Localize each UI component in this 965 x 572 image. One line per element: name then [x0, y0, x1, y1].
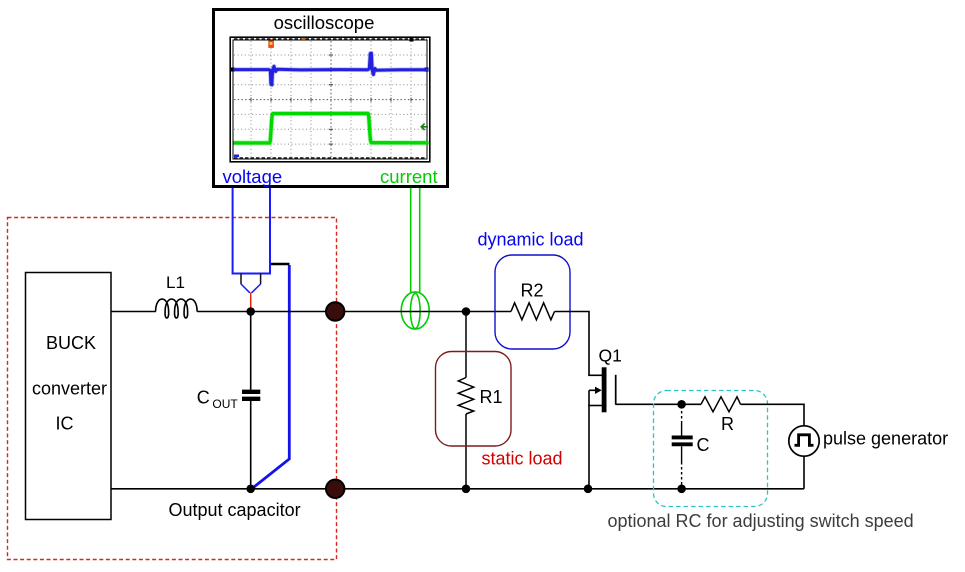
- svg-text:voltage: voltage: [223, 166, 283, 187]
- Q1 gate lead wire to RC: [616, 403, 701, 405]
- voltage probe body bottom: [232, 273, 271, 275]
- capacitor Cout plates: [242, 390, 260, 394]
- scope trigger tick left edge: [231, 68, 235, 72]
- inductor L1 coil: [156, 299, 198, 318]
- wire: R2 to Q1 drain corner: [555, 312, 590, 376]
- Q1 gate electrode: [615, 375, 617, 405]
- voltage probe cable right side: [269, 188, 271, 274]
- voltage probe ground lead (blue): [252, 265, 289, 489]
- node: Q1 source on rail: [584, 485, 593, 494]
- optional RC dashed teal box: [654, 391, 768, 507]
- node A: Cout / probe tip on top wire: [246, 307, 255, 316]
- BUCK converter IC box: [26, 273, 112, 520]
- scope trigger tick right edge: [425, 68, 429, 72]
- capacitor C dashed lead top: [681, 406, 683, 423]
- current probe clamp inner ring: [411, 293, 421, 328]
- Q1 source lead: [588, 405, 602, 407]
- scope screen outer frame: [230, 37, 430, 162]
- svg-text:OUT: OUT: [212, 397, 238, 411]
- R1 branch wire bottom: [465, 414, 467, 489]
- resistor R2 zigzag: [511, 303, 555, 320]
- node: gate / C junction: [677, 400, 686, 409]
- svg-text:converter: converter: [32, 379, 107, 399]
- scope green current trace: [234, 113, 429, 142]
- voltage probe ground lead connector: [271, 263, 290, 266]
- wire: R to pulse generator: [741, 404, 805, 426]
- voltage probe tip pin (red): [250, 293, 252, 309]
- scope blue voltage trace: [234, 53, 429, 85]
- svg-text:current: current: [380, 166, 438, 187]
- R1 branch wire top: [465, 312, 467, 378]
- node: C bottom on rail: [677, 485, 686, 494]
- Q1 source arrow line: [589, 389, 597, 391]
- svg-text:R2: R2: [521, 281, 544, 301]
- svg-text:BUCK: BUCK: [46, 333, 96, 353]
- scope center graticule cross lines: [234, 41, 427, 158]
- dynamic load rounded box (blue): [495, 255, 570, 349]
- voltage probe cable left side: [232, 188, 234, 274]
- current probe cable right side: [419, 188, 421, 294]
- bottom ground rail: [111, 488, 804, 490]
- svg-text:L1: L1: [166, 273, 185, 292]
- top wire: L1 to R2: [197, 311, 511, 313]
- pulse generator circle: [789, 426, 819, 456]
- Cout wire bottom: [250, 401, 252, 489]
- svg-text:pulse generator: pulse generator: [823, 429, 948, 449]
- scope ch1 indicator bottom-left: [234, 155, 239, 158]
- scope bottom edge tick row: [234, 157, 427, 159]
- Q1 channel bar: [602, 367, 607, 412]
- static load rounded box (dark red): [436, 352, 512, 447]
- svg-text:oscilloscope: oscilloscope: [274, 12, 375, 33]
- scope green trace fuzz: [234, 113, 429, 142]
- node: R1 bottom: [462, 485, 471, 494]
- svg-text:C: C: [697, 435, 710, 455]
- svg-text:Output capacitor: Output capacitor: [169, 500, 301, 520]
- scope small orange tick on top row: [302, 38, 306, 40]
- Q1 drain lead: [588, 374, 602, 376]
- top output wire: buck box to L1: [111, 311, 156, 313]
- scope top edge tick row: [234, 38, 427, 40]
- Cout wire top: [250, 312, 252, 390]
- voltage probe tip barrel right: [260, 274, 262, 285]
- svg-text:C: C: [197, 388, 210, 408]
- resistor R zigzag (gate series): [701, 397, 741, 412]
- svg-text:dynamic load: dynamic load: [478, 230, 584, 250]
- Q1 source vertical wire to rail: [588, 390, 590, 489]
- svg-text:Q1: Q1: [599, 346, 622, 366]
- svg-text:IC: IC: [56, 414, 74, 434]
- node: Cout bottom / probe ground: [246, 485, 255, 494]
- pulse symbol: [795, 435, 814, 446]
- terminal post bottom (dark): [326, 480, 344, 498]
- scope trigger tick top edge: [410, 38, 414, 42]
- svg-text:static load: static load: [482, 449, 563, 469]
- scope screen inner frame: [233, 40, 427, 159]
- svg-text:R: R: [721, 414, 734, 434]
- terminal post top (dark): [326, 302, 344, 320]
- capacitor C dashed lead bottom: [681, 462, 683, 487]
- current probe cable left side: [410, 188, 412, 294]
- dashed red box (buck converter module outline): [8, 218, 337, 560]
- scope graticule grid: [234, 41, 427, 158]
- svg-text:optional RC for adjusting swit: optional RC for adjusting switch speed: [608, 511, 914, 531]
- scope green reference arrow right side: [421, 124, 428, 130]
- voltage probe tip cone: [241, 284, 261, 293]
- Q1 source arrow head: [595, 387, 602, 394]
- scope blue trace fuzz: [234, 53, 429, 85]
- node B: R1 branch top: [462, 307, 471, 316]
- capacitor C lead bottom solid: [681, 446, 683, 462]
- current probe clamp outer ring: [401, 292, 429, 329]
- oscilloscope box U-scope: [214, 10, 448, 187]
- scope center graticule cross ticks: [251, 55, 411, 144]
- capacitor C lead top solid: [681, 423, 683, 436]
- svg-text:R1: R1: [480, 387, 503, 407]
- capacitor C plates: [672, 435, 693, 439]
- wire: pulse generator bottom to rail: [803, 456, 805, 489]
- scope channel 1 marker (orange): [268, 41, 274, 48]
- voltage probe tip barrel left: [240, 274, 242, 285]
- resistor R1 zigzag: [458, 378, 473, 415]
